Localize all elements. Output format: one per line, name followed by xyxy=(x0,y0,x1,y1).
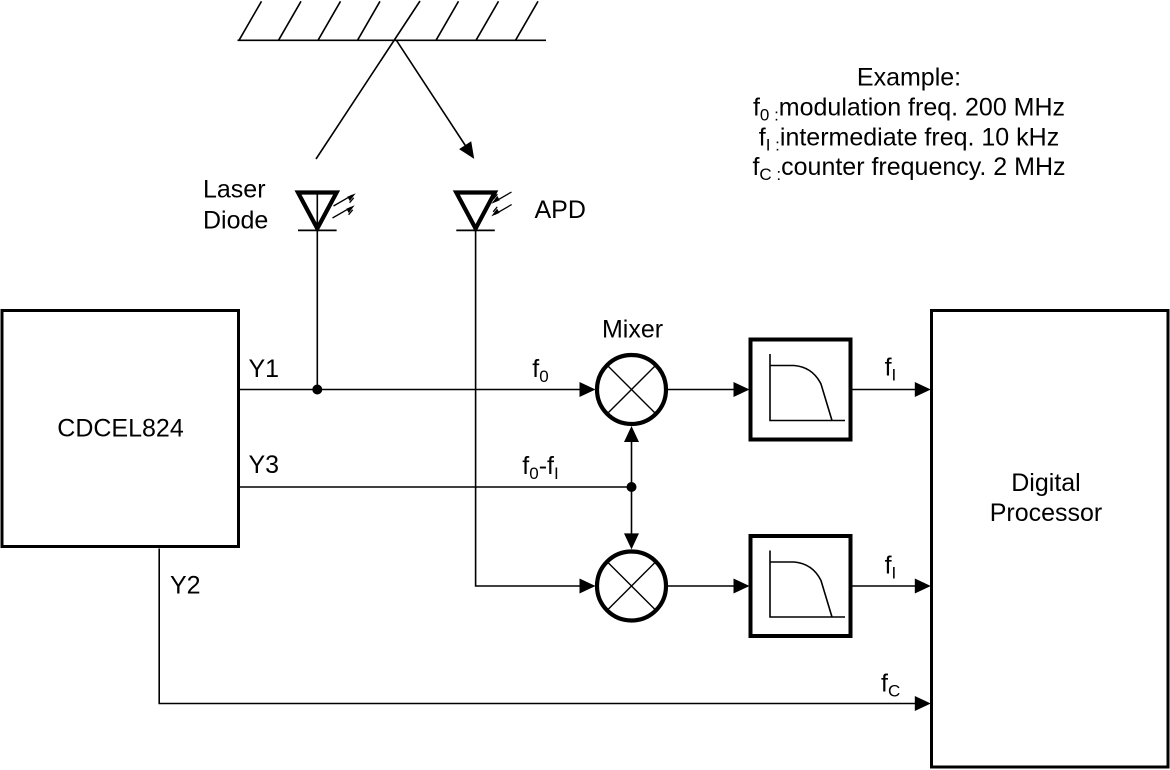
wire filter 2 to processor xyxy=(851,585,917,587)
laser light emission arrows xyxy=(333,193,356,218)
wire mixer 2 to filter 2 xyxy=(666,585,737,587)
svg-text:Digital: Digital xyxy=(1011,469,1080,497)
svg-text:fI :intermediate freq. 10 kHz: fI :intermediate freq. 10 kHz xyxy=(759,124,1059,155)
svg-text:Y1: Y1 xyxy=(249,355,280,383)
mixer 2 xyxy=(597,552,666,621)
svg-text:f0 :modulation freq. 200 MHz: f0 :modulation freq. 200 MHz xyxy=(753,94,1065,125)
junction dot on Y3 wire xyxy=(627,482,637,492)
reflected beam down to APD xyxy=(396,40,474,159)
low-pass filter 1 xyxy=(751,340,851,440)
svg-text:Mixer: Mixer xyxy=(602,316,663,344)
wire Y2 to processor xyxy=(159,549,916,704)
svg-text:fC :counter frequency. 2 MHz: fC :counter frequency. 2 MHz xyxy=(752,153,1065,184)
CDCEL824 block xyxy=(2,311,239,547)
reflective target wall xyxy=(238,1,547,40)
low-pass filter 2 xyxy=(751,536,851,636)
svg-text:Processor: Processor xyxy=(990,499,1103,527)
mixer 1 xyxy=(597,355,666,424)
wire junction to mixer 2 LO (down) xyxy=(631,487,633,537)
svg-text:f0-fI: f0-fI xyxy=(522,452,558,483)
svg-text:Example:: Example: xyxy=(857,64,961,92)
svg-text:Y3: Y3 xyxy=(249,451,280,479)
svg-text:Laser: Laser xyxy=(203,176,266,204)
svg-text:Diode: Diode xyxy=(203,207,268,235)
APD photodiode xyxy=(456,193,495,231)
laser diode xyxy=(298,193,337,390)
svg-text:Y2: Y2 xyxy=(170,572,201,600)
svg-text:CDCEL824: CDCEL824 xyxy=(57,415,184,443)
wire Y1 to mixer 1 xyxy=(240,389,582,391)
wire junction to mixer 1 LO (up) xyxy=(631,438,633,487)
digital processor block xyxy=(932,311,1169,768)
junction dot on Y1 wire xyxy=(312,385,322,395)
APD incident light arrows xyxy=(491,192,512,216)
wire APD to mixer 2 xyxy=(476,230,582,586)
svg-text:APD: APD xyxy=(535,196,586,224)
wire Y3 xyxy=(240,486,632,488)
laser beam up to wall xyxy=(316,1,420,159)
example note text xyxy=(752,64,1065,185)
wire filter 1 to processor xyxy=(851,389,917,391)
wire mixer 1 to filter 1 xyxy=(666,389,737,391)
